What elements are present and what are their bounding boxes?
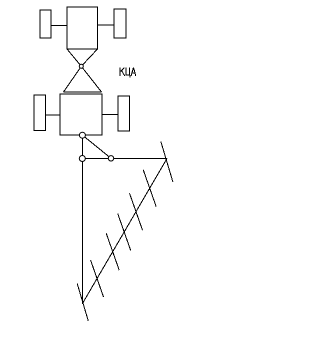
drawbar diagonal link A-C — [82, 135, 111, 158]
vertical frame line down — [81, 159, 83, 305]
rear right wheel — [118, 96, 130, 131]
hitch cross line right — [64, 49, 98, 92]
horizontal tow bar — [82, 157, 167, 159]
joint circle A — [79, 132, 85, 138]
rear left axle wire — [45, 114, 60, 116]
rake tooth 2 — [143, 170, 156, 207]
rake tooth 4 — [118, 214, 131, 251]
hitch cross line left — [67, 49, 102, 92]
rake tooth 3 — [130, 193, 143, 230]
rear left wheel — [34, 95, 45, 131]
front right axle wire — [98, 24, 115, 26]
label letter Ts (Cyrillic Tse) — [126, 68, 130, 78]
drawbar vertical link A-B — [81, 135, 83, 159]
tractor body — [67, 7, 98, 49]
joint circle B — [79, 156, 85, 162]
implement triangle base — [64, 91, 102, 93]
joint circle C — [108, 156, 113, 161]
rear right axle wire — [102, 114, 118, 116]
hitch pivot circle — [79, 64, 83, 68]
front left wheel — [40, 10, 51, 38]
rake tooth 1 — [161, 141, 173, 182]
implement frame — [60, 94, 102, 135]
rake tooth 5 — [106, 233, 119, 270]
rake tooth 7 — [77, 284, 88, 322]
rake main beam — [82, 159, 167, 305]
label letter K (Cyrillic Ka) — [120, 68, 125, 77]
front left axle wire — [51, 25, 67, 27]
front right wheel — [114, 9, 126, 38]
rake tooth 6 — [91, 260, 104, 297]
label letter A (Cyrillic A) — [131, 68, 136, 77]
